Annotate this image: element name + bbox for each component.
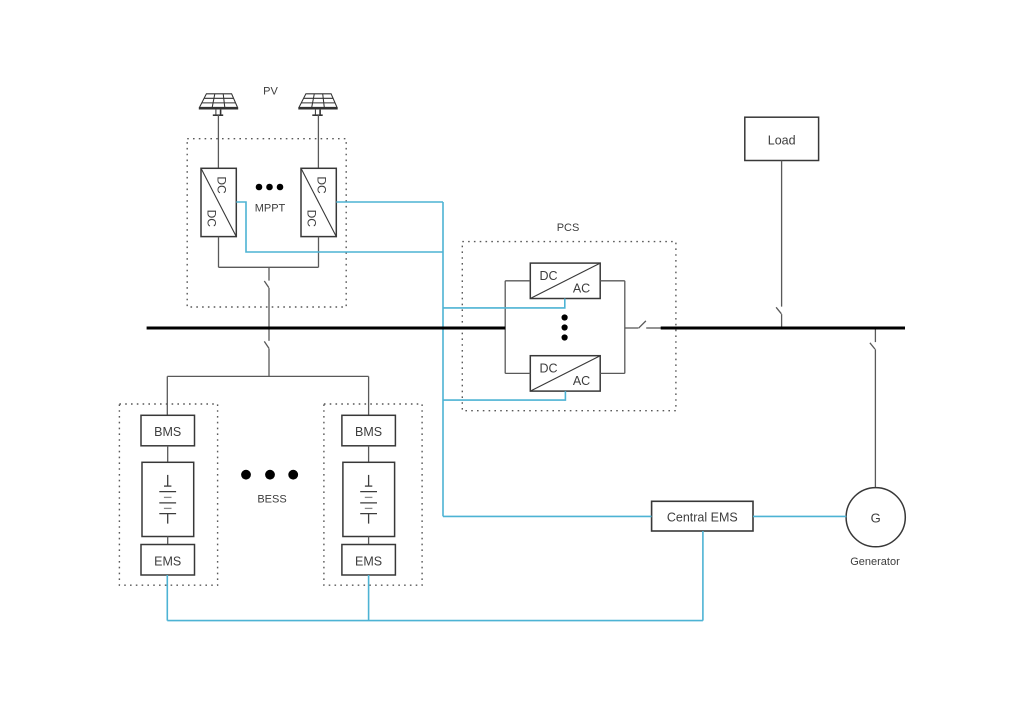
- DC bus (left): [147, 327, 506, 330]
- switch PV-bus: [264, 281, 269, 288]
- battery 2: [343, 462, 395, 536]
- svg-text:G: G: [871, 511, 881, 526]
- wire switch to AC bus: [646, 327, 661, 329]
- wire switch to DC bus: [268, 288, 270, 327]
- svg-text:EMS: EMS: [154, 554, 181, 568]
- battery 1: [142, 462, 194, 536]
- wire DC/AC2 to right rail: [600, 372, 625, 374]
- block Load: [745, 117, 819, 160]
- switch bus-generator: [870, 343, 875, 349]
- svg-text:AC: AC: [573, 282, 590, 296]
- switch Load-bus: [776, 307, 781, 314]
- svg-text:Generator: Generator: [850, 556, 900, 568]
- wire left rail to DC/AC1: [505, 280, 530, 282]
- comm wire DC/DC1 out: [236, 202, 443, 252]
- svg-text:EMS: EMS: [355, 554, 382, 568]
- comm wire trunk to Central EMS: [443, 515, 652, 517]
- wire Load down: [781, 161, 783, 307]
- PCS ellipsis dots: [562, 314, 568, 340]
- switch PCS-AC bus: [638, 321, 646, 328]
- wire BESS tee: [167, 375, 368, 377]
- svg-text:PCS: PCS: [557, 222, 580, 234]
- svg-text:DC: DC: [315, 176, 329, 194]
- BESS ellipsis dots: [241, 470, 298, 480]
- svg-text:Central EMS: Central EMS: [667, 510, 738, 524]
- wire BMS2 to battery2: [368, 446, 370, 463]
- comm wire EMS bottom bus: [167, 620, 703, 622]
- svg-text:AC: AC: [573, 374, 590, 388]
- comm wire Central EMS to generator: [753, 515, 846, 517]
- wire switch to BESS junction: [268, 348, 270, 376]
- wire to BMS 2: [368, 376, 370, 415]
- svg-text:DC: DC: [539, 362, 557, 376]
- svg-text:DC: DC: [539, 269, 557, 283]
- wire switch to generator: [874, 349, 876, 487]
- comm wire Central EMS down: [702, 531, 704, 621]
- wire DC/DC 1 output down: [218, 237, 220, 268]
- AC bus (right): [661, 327, 905, 330]
- wire battery1 to EMS1: [167, 537, 169, 545]
- comm wire DC/DC2 out: [336, 201, 443, 203]
- wire switch to AC bus: [781, 314, 783, 327]
- svg-text:DC: DC: [305, 210, 319, 228]
- switch bus-BESS: [264, 341, 269, 348]
- comm branch to DC/AC2: [443, 391, 565, 400]
- svg-text:Load: Load: [768, 133, 796, 147]
- svg-text:MPPT: MPPT: [255, 203, 286, 215]
- wire battery2 to EMS2: [368, 537, 370, 545]
- BESS unit 1 dotted enclosure: [119, 404, 217, 585]
- block Central EMS: [652, 501, 753, 531]
- svg-text:PV: PV: [263, 85, 278, 97]
- PCS dotted enclosure: [462, 242, 676, 411]
- BESS unit 2 dotted enclosure: [324, 404, 422, 585]
- wire MPPT to switch: [268, 267, 270, 280]
- svg-text:BESS: BESS: [257, 494, 286, 506]
- wire left rail to DC/AC2: [505, 372, 530, 374]
- block BMS 2: [342, 415, 396, 446]
- wire PV1 to DC/DC 1: [217, 115, 219, 168]
- MPPT ellipsis dots: [256, 184, 284, 191]
- block EMS 1: [141, 545, 195, 576]
- converter DC/AC 1: [530, 263, 600, 298]
- svg-text:BMS: BMS: [355, 425, 382, 439]
- wire DC bus to switch: [268, 329, 270, 341]
- svg-text:DC: DC: [215, 176, 229, 194]
- wire PV2 to DC/DC 2: [317, 115, 319, 168]
- wire PCS left rail: [504, 281, 506, 374]
- wire DC/AC1 to right rail: [600, 280, 625, 282]
- comm wire EMS1 down: [166, 575, 168, 621]
- wire to BMS 1: [166, 376, 168, 415]
- wire AC bus to generator switch: [874, 329, 876, 342]
- wire MPPT output junction: [219, 266, 319, 268]
- svg-text:BMS: BMS: [154, 425, 181, 439]
- converter DC/DC 1: [201, 168, 236, 236]
- wire DC/DC 2 output down: [318, 237, 320, 268]
- converter DC/DC 2: [301, 168, 336, 236]
- PV panel 2: [298, 94, 337, 115]
- comm branch to DC/AC1: [443, 299, 565, 308]
- PV panel 1: [199, 94, 238, 115]
- MPPT dotted enclosure: [187, 139, 346, 307]
- wire BMS1 to battery1: [167, 446, 169, 463]
- comm trunk vertical: [442, 202, 444, 516]
- comm wire EMS2 down: [368, 575, 370, 621]
- block EMS 2: [342, 545, 396, 576]
- wire right rail to switch: [625, 327, 638, 329]
- block BMS 1: [141, 415, 195, 446]
- svg-text:DC: DC: [205, 210, 219, 228]
- generator G: [846, 488, 905, 547]
- converter DC/AC 2: [530, 356, 600, 391]
- wire PCS right rail: [624, 281, 626, 374]
